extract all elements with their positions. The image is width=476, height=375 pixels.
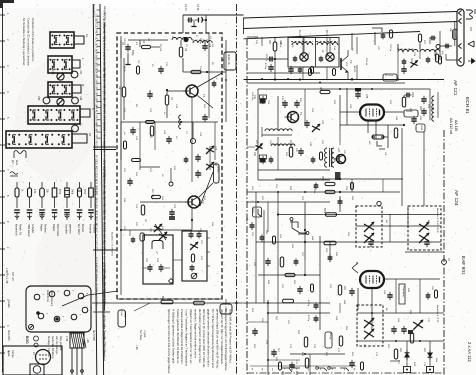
svg-text:R21 1k: R21 1k <box>265 54 267 62</box>
svg-text:T4: T4 <box>299 112 303 116</box>
svg-text:150p: 150p <box>131 50 134 56</box>
svg-text:R2 10k: R2 10k <box>159 44 161 52</box>
svg-text:Gegenkplg: Gegenkplg <box>402 286 404 297</box>
svg-text:L97: L97 <box>79 70 82 75</box>
svg-text:Scheibe: Scheibe <box>31 224 34 234</box>
svg-text:AF 121: AF 121 <box>452 80 458 96</box>
svg-text:2 x AA 112: 2 x AA 112 <box>467 342 472 362</box>
svg-text:Contacts de S1 en position L d: Contacts de S1 en position L dessine <box>26 18 30 66</box>
svg-text:gepresst: gepresst <box>68 224 71 234</box>
svg-text:NCT 7.8: NCT 7.8 <box>151 189 153 198</box>
svg-text:Ansicht der: Ansicht der <box>46 290 49 302</box>
svg-text:4700p: 4700p <box>307 315 309 322</box>
svg-text:C93: C93 <box>51 70 54 75</box>
svg-text:240k: 240k <box>71 189 73 195</box>
svg-text:Me 57/58: Me 57/58 <box>92 330 95 341</box>
svg-text:5700: 5700 <box>83 189 85 195</box>
svg-text:U gedr.: U gedr. <box>143 330 146 338</box>
svg-text:sw: sw <box>271 368 273 371</box>
svg-text:seite gesehen: seite gesehen <box>59 336 62 352</box>
svg-text:Abgleich an T bei Impedanz wir: Abgleich an T bei Impedanz wird nur mit … <box>189 309 193 365</box>
svg-text:AA 112 od: AA 112 od <box>449 118 453 134</box>
svg-text:C35 2n: C35 2n <box>281 96 283 104</box>
svg-text:B1 10.7: B1 10.7 <box>298 30 300 39</box>
svg-text:4700p: 4700p <box>307 300 309 307</box>
svg-text:gemessen (Input 300 uV mod 30%: gemessen (Input 300 uV mod 30% mit ZF 46… <box>215 309 219 368</box>
svg-text:Tonband: Tonband <box>103 351 107 362</box>
svg-text:Tastatur gedrueckt. Bei Betrie: Tastatur gedrueckt. Bei Betrieb mit Mueh… <box>176 309 180 364</box>
svg-text:C: C <box>195 35 198 37</box>
svg-text:Pin 7 M fuer Spannungsmessung: Pin 7 M fuer Spannungsmessung abmessen w… <box>211 309 215 368</box>
svg-text:U: U <box>79 124 82 126</box>
svg-text:R39 500k: R39 500k <box>313 184 315 194</box>
svg-text:M: M <box>81 84 85 86</box>
svg-text:C 99: C 99 <box>65 336 68 342</box>
svg-text:C41: C41 <box>253 152 255 157</box>
svg-text:R30: R30 <box>419 106 421 111</box>
svg-text:Schltg: Schltg <box>124 311 127 318</box>
svg-text:Chassis parallel anliegend sin: Chassis parallel anliegend sind die Posi… <box>180 309 184 364</box>
svg-text:C61: C61 <box>343 286 345 291</box>
svg-text:ECH 81: ECH 81 <box>464 97 470 114</box>
svg-text:Bandfilter 4.72 ZF: Bandfilter 4.72 ZF <box>436 305 439 323</box>
svg-text:C38: C38 <box>365 94 367 99</box>
svg-text:AF 124: AF 124 <box>453 190 459 206</box>
svg-text:S1 II: S1 II <box>252 208 254 213</box>
svg-text:4700p: 4700p <box>264 63 266 70</box>
svg-text:C32 5n: C32 5n <box>279 40 281 48</box>
svg-text:L 99: L 99 <box>135 345 138 350</box>
svg-text:Rohrk. Tol: Rohrk. Tol <box>18 224 21 236</box>
svg-text:Tonabn.: Tonabn. <box>7 300 9 309</box>
svg-text:Nur Taste: Nur Taste <box>139 330 142 341</box>
svg-text:Skalen: Skalen <box>95 303 97 311</box>
svg-text:C31 40p: C31 40p <box>251 92 253 101</box>
svg-text:4 und 7 verbunden. Abgleich an: 4 und 7 verbunden. Abgleich an T bei Imp… <box>185 309 189 367</box>
svg-text:Abgleich der ZF Filter nur mit: Abgleich der ZF Filter nur mit Abgleichb… <box>220 309 224 364</box>
svg-text:von der Leitungs-: von der Leitungs- <box>55 336 58 355</box>
svg-text:500V Wick: 500V Wick <box>56 224 59 237</box>
svg-text:T3: T3 <box>349 60 353 64</box>
svg-text:NDK keram: NDK keram <box>27 224 30 237</box>
svg-text:L 99: L 99 <box>86 338 89 343</box>
svg-text:BOG: BOG <box>25 336 29 344</box>
svg-text:100n: 100n <box>411 92 413 98</box>
svg-text:R21: R21 <box>268 40 270 45</box>
svg-text:Skala: Skala <box>7 350 10 357</box>
svg-text:Netz 220V: Netz 220V <box>7 330 10 341</box>
svg-text:in Stellung U gemessen und bei: in Stellung U gemessen und bei Tastatur … <box>171 309 175 364</box>
svg-text:Draht 1.5k: Draht 1.5k <box>227 54 230 65</box>
svg-text:+: + <box>216 77 218 81</box>
svg-text:aenderlich. Regler wird oft en: aenderlich. Regler wird oft entfernt und… <box>193 309 197 359</box>
svg-text:Bei abgen. Chassis: Bei abgen. Chassis <box>47 336 50 357</box>
svg-text:keramisch: keramisch <box>14 224 17 236</box>
svg-text:(Input 300 uV mod 30 Prozent m: (Input 300 uV mod 30 Prozent mit ZF 468 … <box>229 309 233 363</box>
svg-text:500k: 500k <box>323 208 325 214</box>
svg-text:T1: T1 <box>202 94 206 98</box>
svg-text:Ratio: Ratio <box>95 277 98 283</box>
svg-text:C37 5p: C37 5p <box>389 44 391 52</box>
svg-text:Erde: Erde <box>15 160 18 166</box>
svg-text:EAF 801: EAF 801 <box>460 256 466 275</box>
svg-text:Klangr: Klangr <box>329 333 332 340</box>
svg-text:U1: U1 <box>88 133 92 137</box>
svg-text:Regelspannung pruefen: am Punk: Regelspannung pruefen: am Punkt M gegen … <box>224 309 228 371</box>
svg-text:C4 150: C4 150 <box>123 38 125 46</box>
svg-text:Roderst.: Roderst. <box>43 224 46 234</box>
svg-text:Bandfilter 4.72 470-34-35: Bandfilter 4.72 470-34-35 <box>436 208 439 233</box>
svg-text:C95: C95 <box>37 96 40 101</box>
svg-text:R24: R24 <box>319 87 321 92</box>
svg-text:Contacts of S1 drawn in positi: Contacts of S1 drawn in position L <box>31 18 35 62</box>
svg-text:R25 4k: R25 4k <box>365 58 367 66</box>
svg-text:ZF Verst: ZF Verst <box>385 74 394 77</box>
svg-text:geglichen werden. Messender Br: geglichen werden. Messender Bruecke 6 un… <box>207 309 211 367</box>
svg-text:470k: 470k <box>58 189 60 195</box>
svg-text:L25 ZF 468: L25 ZF 468 <box>103 241 107 255</box>
svg-text:Becher: Becher <box>81 224 84 232</box>
svg-text:L 99, FL 1, 98: L 99, FL 1, 98 <box>5 268 8 284</box>
svg-text:AA 116: AA 116 <box>454 120 458 131</box>
svg-text:S1 Kontakte in Stellung L geze: S1 Kontakte in Stellung L gezeichnet <box>22 18 26 65</box>
svg-text:Keramik: Keramik <box>88 224 91 234</box>
svg-text:Bandfilter 1.72 OS-34 W: Bandfilter 1.72 OS-34 W <box>111 232 114 257</box>
svg-text:Gedruckte Schaltung: Gedruckte Schaltung <box>51 336 54 359</box>
svg-text:L25 ZF: L25 ZF <box>95 242 97 250</box>
svg-text:300 muss vor ZF ant bei dem UK: 300 muss vor ZF ant bei dem UKW 10.7 Mc/… <box>202 309 206 368</box>
svg-text:S1f: S1f <box>384 152 386 156</box>
svg-text:Gl 1 B: Gl 1 B <box>95 142 97 149</box>
svg-text:L98: L98 <box>79 96 82 101</box>
svg-text:Gedr.: Gedr. <box>120 311 123 317</box>
svg-text:Lampe: Lampe <box>11 350 14 358</box>
svg-text:C8 5p: C8 5p <box>199 38 201 45</box>
svg-text:C97 L23: C97 L23 <box>11 272 13 281</box>
svg-text:Si 0.2: Si 0.2 <box>95 297 97 304</box>
svg-text:die Position U gebracht, dann: die Position U gebracht, dann Regler arm… <box>198 309 202 363</box>
svg-text:Druckt: Druckt <box>217 166 220 173</box>
svg-text:Papier: Papier <box>39 224 42 231</box>
svg-text:Spannungen mit Instrument 333: Spannungen mit Instrument 333 Ohm/V gege… <box>167 309 171 374</box>
svg-text:AM: AM <box>245 218 248 222</box>
svg-text:AF121: AF121 <box>353 66 356 73</box>
svg-text:C2 15: C2 15 <box>196 4 199 11</box>
svg-text:C1 40: C1 40 <box>184 4 187 11</box>
svg-text:R6 1k: R6 1k <box>123 66 125 73</box>
svg-text:Papier: Papier <box>52 224 55 231</box>
svg-text:Rohrenfassung: Rohrenfassung <box>50 290 53 307</box>
